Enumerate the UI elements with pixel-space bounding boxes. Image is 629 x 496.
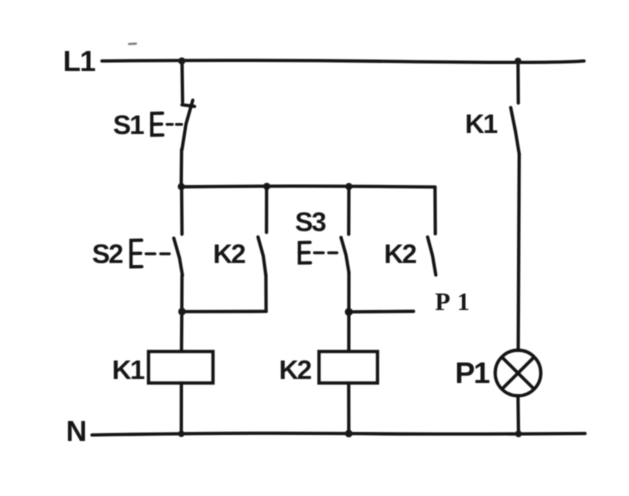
wire bus to S2 <box>180 187 184 235</box>
svg-text:N: N <box>66 416 87 448</box>
wire coil K1 to N <box>180 383 183 434</box>
svg-text:K1: K1 <box>112 355 145 385</box>
coil K1 <box>149 352 214 384</box>
contact S1 (NC pushbutton) <box>182 105 195 107</box>
lamp P1 <box>495 350 541 396</box>
wire junction to coil K1 <box>180 312 184 352</box>
svg-text:K2: K2 <box>213 239 245 269</box>
mid bus wire <box>181 184 435 188</box>
svg-text:P1: P1 <box>455 357 490 390</box>
wire S3 to junction <box>347 272 350 351</box>
wire K1 contact to lamp <box>518 154 519 351</box>
actuator E of S2 <box>131 240 142 267</box>
label S1 <box>113 110 145 140</box>
label K2 coil <box>279 355 311 385</box>
rail L1 <box>102 60 584 62</box>
node bus / S3 <box>345 183 352 190</box>
node at L1 / S1 branch <box>178 57 185 64</box>
label L1 <box>63 46 96 78</box>
node bus / K2 left <box>263 183 270 190</box>
wire K2 left to tie <box>264 275 268 311</box>
label K1 contact <box>465 109 498 139</box>
svg-text:K2: K2 <box>384 239 416 269</box>
svg-text:P 1: P 1 <box>435 289 471 316</box>
stray scan dot <box>129 42 136 45</box>
node bus / S2 <box>178 183 185 190</box>
label P 1 (serif annotation) <box>435 289 471 316</box>
actuator E of S3 <box>299 242 310 263</box>
node S2 branch / tie <box>178 308 186 316</box>
svg-text:S2: S2 <box>92 239 123 269</box>
svg-text:S3: S3 <box>295 207 327 237</box>
contact K1 (NO) <box>511 108 520 155</box>
label K2 right <box>384 239 416 269</box>
contact S3 (NO pushbutton) <box>341 237 349 272</box>
rail N <box>92 433 585 435</box>
wire bus to S3 <box>347 187 350 235</box>
node S3 branch / P1 stub <box>345 308 353 316</box>
wire bus to K2 contact left <box>265 187 268 233</box>
node at L1 / K1 branch <box>515 58 522 65</box>
wire stub toward P 1 <box>349 310 414 314</box>
label S3 <box>295 207 327 237</box>
label S2 <box>92 239 123 269</box>
wire S2 to junction <box>180 275 183 311</box>
node lamp / N <box>515 430 522 437</box>
wire bus corner to K2 right <box>433 187 437 234</box>
contact K2 aux (NO, right) <box>428 237 436 275</box>
label K2 left <box>213 239 245 269</box>
actuator E of S1 <box>152 113 163 135</box>
node K1 / N <box>178 431 184 437</box>
label N <box>66 416 87 448</box>
label K1 coil <box>112 355 145 385</box>
tie wire S2/K2 <box>182 310 266 314</box>
wire L1 to K1 contact <box>516 61 520 104</box>
svg-text:K2: K2 <box>279 355 311 385</box>
svg-text:K1: K1 <box>465 109 498 139</box>
svg-text:S1: S1 <box>113 110 145 140</box>
wire S1 to mid bus <box>180 150 184 187</box>
svg-text:L1: L1 <box>63 46 96 78</box>
label P1 lamp <box>455 357 490 390</box>
wire L1 to S1 <box>180 60 184 102</box>
node K2 / N <box>345 430 353 438</box>
contact S2 (NO pushbutton) <box>174 238 183 275</box>
wire lamp to N <box>516 396 520 434</box>
contact K2 aux (NO, left) <box>258 237 266 275</box>
wire coil K2 to N <box>347 383 350 434</box>
coil K2 <box>319 352 378 384</box>
